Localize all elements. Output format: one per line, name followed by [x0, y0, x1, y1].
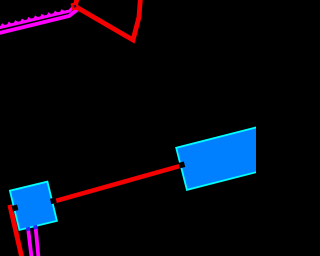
node pad black on left edge of small building [12, 205, 19, 212]
node A dark center [73, 5, 76, 8]
node A red square marker [71, 2, 80, 11]
wire: upper magenta way (with ticks) top-left [0, 6, 75, 29]
node pad blue bottom-left on small building [26, 227, 31, 232]
wire: red way top (V shape with stub) [75, 0, 141, 40]
building small (selected, cyan outline) [8, 181, 62, 234]
wire: red way connecting the two buildings [53, 166, 181, 202]
building large right (selected, cyan outline) [175, 123, 284, 190]
wire: bottom magenta way left [28, 227, 32, 256]
wire: bottom magenta way right [35, 225, 38, 256]
node pad black on right edge of small building [50, 197, 57, 204]
wire: red way bottom-left going off canvas [10, 205, 22, 256]
node pad blue bottom-right on small building [33, 225, 38, 230]
node pad black on left edge of large building [178, 162, 185, 169]
wire: tick bumps on upper magenta way [0, 9, 64, 26]
wire: lower magenta way top-left [0, 10, 78, 34]
